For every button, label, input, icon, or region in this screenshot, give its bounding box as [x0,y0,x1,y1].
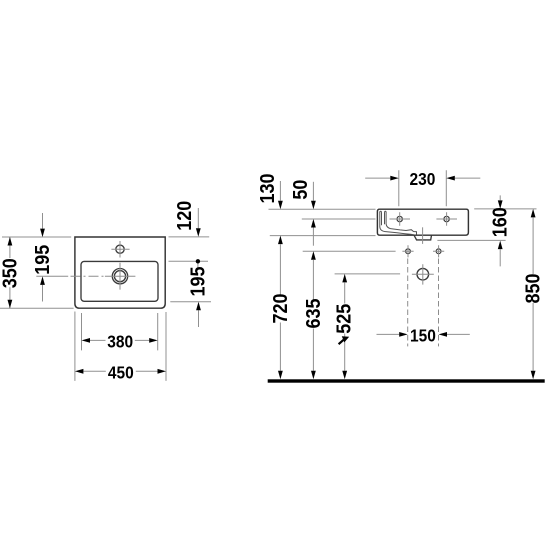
dimension 380 arrow right [149,338,158,343]
dimension 50 lower tail [312,228,314,246]
dimension 350 line [9,237,11,308]
dimension 120 line [197,208,199,228]
dimension 50 line [312,182,314,201]
basin outer rim (plan view) [75,237,165,308]
dimension 50 arrow down [311,201,316,210]
dimension 525 arrow up [342,274,347,283]
lower fixing hole left crosshair [402,245,413,257]
dimension 525 line [344,282,346,370]
dimension 150 arrow left [439,332,448,337]
dimension 230 left tail [365,177,390,179]
dimension 195 left line [42,213,44,302]
svg-text:525: 525 [334,303,356,333]
drain crosshair [105,263,135,290]
extension line basin top right side [474,208,536,210]
dimension 50 lower arrow up [311,219,316,228]
dimension 635 arrow down [311,371,316,380]
extension line bowl bottom right [170,301,211,303]
profile bowl inner surface [386,212,416,235]
dimension 230 arrow left [446,176,455,181]
dimension 160 arrow up [498,241,503,250]
basin profile outline (side view) [377,209,468,235]
extension line top of plan [2,236,71,238]
dimension 350 arrow down [8,300,13,309]
svg-text:450: 450 [108,362,134,382]
dimension 230 arrow right [390,176,399,181]
lower fixing hole right [436,249,441,254]
siphon crosshair [412,264,434,284]
extension line siphon level [335,273,401,275]
fixing hole left (profile) [397,216,402,221]
dimension 720 arrow down [278,371,283,380]
svg-text:230: 230 [409,169,435,189]
dimension dot [196,259,200,263]
dimension 635 arrow up [311,251,316,260]
lower fixing hole left [406,249,411,254]
basin bowl (plan view) [81,261,158,301]
lower fixing hole right crosshair [433,245,444,257]
dimension 850 arrow up [531,209,536,218]
faucet hole crosshair [111,241,129,258]
svg-text:150: 150 [410,326,436,346]
dimension 120 arrow down [196,228,201,237]
dimension 150 left tail [377,333,400,335]
profile front wall inner lines [381,213,383,226]
dimension 130 arrow down [278,201,283,210]
dimension 720 line [279,244,281,371]
dimension 635 line [312,260,314,371]
extension line basin bottom [270,235,376,237]
extension lines 230 [399,170,447,206]
svg-text:380: 380 [107,332,133,352]
fixing hole right crosshair [436,212,457,225]
svg-text:195: 195 [32,244,54,274]
extension lines 380 [82,313,158,350]
drain outer circle [112,269,127,284]
extension line bottom of plan [0,307,74,309]
drain outlet trapezoid [414,235,432,240]
faucet hole [116,245,124,253]
dimension 380 arrow left [82,338,91,343]
dimension 160 arrow down [498,200,503,209]
dimension 450 arrow left [75,369,84,374]
extension line bowl top right [169,260,209,262]
extension line drain bottom right [437,239,505,241]
dimension 195 right line [197,264,200,328]
svg-text:50: 50 [290,180,312,200]
dimension 150 right tail [447,333,470,335]
dashed projection line right [438,259,440,347]
svg-text:635: 635 [303,298,325,328]
floor line [268,379,545,382]
dimension 850 line [532,217,534,370]
profile front wall outer line [380,212,414,235]
dimension 450 arrow right [158,369,167,374]
dimension 130 line [279,181,281,201]
svg-text:720: 720 [270,293,292,323]
dimension 850 arrow down [531,371,536,380]
dimension 525 arrow down [342,371,347,380]
svg-text:350: 350 [0,258,22,288]
dimension 350 arrow up [8,237,13,246]
extension line basin top left side [269,208,376,210]
drain outlet centerline [422,227,424,244]
drain centerline dash-dot [36,275,68,277]
dimension 195 left arrow up [40,276,45,285]
dimension 380 line [90,339,149,341]
extension line 120 [169,236,210,238]
svg-text:130: 130 [257,173,279,203]
dashed projection line left [407,259,409,347]
profile rim caps [380,211,386,213]
adjustable height flag [339,340,344,344]
fixing hole left crosshair [390,212,411,225]
extension line hole level [302,218,376,220]
dimension 160 line [499,195,501,266]
svg-text:195: 195 [188,266,210,296]
svg-text:120: 120 [174,201,196,231]
siphon hole [417,268,429,280]
extension line lower holes [303,250,396,252]
fixing hole right (profile) [444,216,449,221]
dimension 195 left arrow down [40,229,45,238]
svg-text:850: 850 [523,273,545,303]
svg-text:160: 160 [490,207,512,237]
drain inner circle [114,271,125,282]
extension lines 450 [75,312,166,381]
dimension 230 right tail [455,177,481,179]
dimension 450 line [83,370,157,372]
dimension 150 arrow right [399,332,408,337]
dimension 720 arrow up [278,236,283,245]
dimension 195 right arrow up [196,302,201,311]
